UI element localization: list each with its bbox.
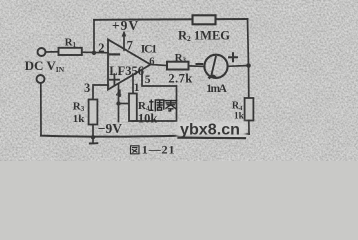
node: pin2 / feedback junction (92, 51, 96, 55)
stub end bar below rail at R3 (90, 142, 98, 144)
wire down to R4 right (248, 66, 250, 99)
node R3 bottom rail junction (91, 135, 95, 139)
resistor R1 (59, 48, 82, 55)
wire from pin2 junction up to top rail (93, 20, 95, 53)
meter minus polarity (197, 63, 203, 65)
wire pin 3 to R3 (93, 85, 108, 100)
wire R3 to meter (189, 65, 205, 68)
wire terminal to R1 (46, 51, 59, 53)
+9V arrowhead (122, 31, 127, 37)
resistor R4 right 1k (245, 98, 254, 121)
watermark ybx8.cn (177, 122, 246, 139)
node meter output junction (246, 63, 251, 68)
wire R3 to bottom rail (92, 125, 94, 144)
chinese char tu (figure) (131, 146, 140, 154)
resistor R3 (1k to ground rail) (89, 100, 98, 125)
wire pin 5 loop to potentiometer bottom (133, 70, 177, 121)
node wiper junction on pin4 line (116, 101, 120, 105)
caption: figure label (131, 143, 176, 157)
resistor R2 (193, 15, 216, 24)
wiper wire to potentiometer (119, 103, 130, 105)
potentiometer R4 body (zero adjust) (129, 94, 137, 122)
chinese char tiao (150, 100, 164, 111)
wire R1 to op-amp pin 2 (82, 51, 108, 54)
input terminal (upper) (38, 48, 46, 56)
input terminal (lower) (37, 75, 45, 83)
wire pin 4 down to -9V (118, 84, 120, 122)
wire meter to right rail (228, 65, 249, 68)
wire pin 7 to +9V arrow (123, 33, 125, 50)
plus sign non-inverting input (110, 74, 119, 85)
wire right side down from rail to meter node (248, 19, 249, 66)
wire lower terminal down to bottom rail (40, 83, 42, 136)
meter needle (211, 57, 216, 76)
wire op-amp output pin 6 to R3 series (151, 65, 168, 66)
meter M 1mA body (204, 55, 227, 78)
wire bottom rail (41, 134, 249, 137)
meter plus polarity (229, 53, 237, 61)
resistor R3 series 2.7k (167, 62, 189, 70)
wire R4 to bottom rail (248, 121, 250, 135)
op-amp IC1 LF356 triangle (108, 40, 151, 90)
meter needle base (210, 76, 216, 78)
wire top rail (94, 18, 248, 21)
scan grain overlay (0, 0, 358, 161)
minus sign inverting input (110, 53, 119, 55)
chinese char ling (165, 101, 176, 111)
wire pin 1 down to potentiometer (132, 75, 134, 94)
